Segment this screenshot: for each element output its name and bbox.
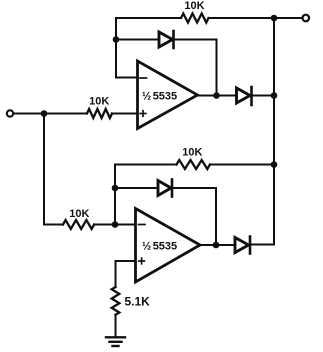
wire diode D3 row <box>115 187 158 189</box>
wire U1 output row <box>198 95 237 97</box>
node D3 tap <box>112 185 119 192</box>
svg-text:5.1K: 5.1K <box>125 295 151 309</box>
ground <box>106 337 125 346</box>
wire bottom input row <box>44 224 63 226</box>
node input junction <box>41 110 48 117</box>
node right bus / D2 <box>271 92 278 99</box>
resistor R4 10K (bottom input) <box>63 220 94 229</box>
svg-text:10K: 10K <box>182 146 202 158</box>
resistor R1 10K (top feedback) <box>181 14 209 23</box>
wire to ground <box>115 315 117 337</box>
diode D2 (top output) <box>237 87 275 105</box>
node U1 output / feedback <box>213 92 220 99</box>
resistor R2 10K (top input) <box>87 109 112 118</box>
wire left feedback vertical (bottom op-amp) <box>114 165 116 225</box>
wire left bus down <box>43 114 45 225</box>
input terminal <box>7 110 13 116</box>
wire input row <box>14 113 88 115</box>
wire bottom feedback row <box>115 164 177 166</box>
resistor R5 5.1K <box>112 287 120 315</box>
node U2 output / feedback <box>213 242 220 249</box>
node feedback tap <box>113 36 120 43</box>
node bottom feedback / bus <box>271 161 278 168</box>
diode D1 (top op-amp feedback) <box>159 31 217 96</box>
svg-text:10K: 10K <box>89 95 109 107</box>
svg-text:½5535: ½5535 <box>142 91 177 103</box>
resistor R3 10K (bottom feedback) <box>177 160 211 169</box>
wire right bus <box>273 18 275 245</box>
wire non-inverting input to divider <box>116 261 136 287</box>
svg-text:10K: 10K <box>184 0 204 12</box>
diode D4 (bottom output) <box>235 237 273 254</box>
op-amp U1 half-5535 <box>138 61 198 129</box>
output terminal <box>303 15 310 22</box>
svg-text:10K: 10K <box>69 208 89 220</box>
wire left feedback vertical (top op-amp) <box>116 18 138 78</box>
op-amp U2 half-5535 <box>136 209 201 283</box>
wire diode D1 row <box>116 39 159 41</box>
node top-right junction <box>271 15 278 22</box>
wire top feedback row <box>116 17 181 19</box>
diode D3 (bottom op-amp feedback) <box>158 180 216 246</box>
node inverting input <box>112 221 119 228</box>
wire to output terminal <box>274 17 302 19</box>
svg-text:½5535: ½5535 <box>142 241 177 253</box>
wire U2 output row <box>200 244 235 246</box>
